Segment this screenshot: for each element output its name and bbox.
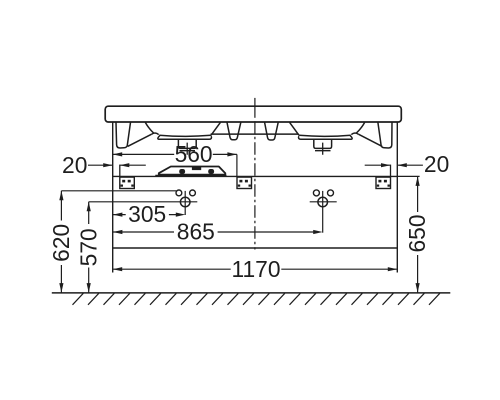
left faucet holes — [176, 190, 182, 196]
right underside diagonal — [358, 134, 382, 146]
left drain cross — [180, 143, 196, 155]
right drain crosshair — [318, 197, 328, 207]
right bowl hump — [351, 133, 358, 135]
dim 1170 — [113, 268, 398, 270]
cabinet top line — [113, 175, 398, 177]
dim 20 right — [365, 164, 423, 166]
right bowl outer wall — [356, 122, 365, 133]
inter-bowl ledge line — [211, 133, 299, 135]
svg-text:865: 865 — [177, 219, 215, 245]
right inner reference line — [390, 165, 392, 177]
dim 560 arrows — [113, 152, 237, 156]
right drain stub — [314, 139, 332, 148]
left underside diagonal — [128, 134, 152, 146]
floor hatching — [73, 293, 440, 305]
dim 560 line — [113, 154, 237, 176]
svg-text:20: 20 — [424, 151, 449, 177]
right bowl inner left wall — [290, 122, 300, 135]
dim 865 — [113, 231, 315, 233]
svg-text:560: 560 — [175, 141, 213, 167]
bracket foot right — [208, 169, 214, 174]
bracket center tab — [192, 166, 201, 170]
bracket baseline — [155, 175, 226, 177]
left bowl under line with curled ends — [158, 136, 212, 140]
left inner reference line — [119, 165, 121, 177]
right leg (basin apron) — [378, 122, 392, 148]
centerline (vertical dash-dot axis) — [254, 98, 256, 118]
left leg (basin apron) — [116, 122, 131, 148]
dim 570 — [89, 202, 198, 293]
right faucet holes — [313, 190, 319, 196]
drain bracket body — [159, 167, 226, 175]
left bowl outer wall — [145, 122, 154, 133]
mounting box left — [120, 177, 135, 188]
left bowl bottom line — [159, 135, 211, 136]
svg-text:305: 305 — [128, 201, 166, 227]
middle tooth A — [227, 122, 241, 139]
svg-text:20: 20 — [62, 152, 87, 178]
left drain stub — [178, 139, 196, 148]
dim 650 — [397, 176, 419, 292]
countertop slab — [105, 106, 401, 122]
middle tooth B — [265, 122, 279, 140]
left drain crosshair — [180, 197, 190, 207]
svg-text:650: 650 — [404, 214, 430, 252]
right bowl under line with curled ends — [299, 136, 353, 140]
cabinet right side / extension line — [396, 122, 398, 272]
svg-text:570: 570 — [75, 228, 101, 266]
svg-text:620: 620 — [48, 224, 74, 262]
mounting box right — [376, 177, 391, 188]
cabinet left side / extension line — [112, 122, 114, 272]
right drain cross — [315, 143, 331, 155]
left bowl hump — [152, 133, 159, 135]
bracket foot left — [179, 169, 185, 174]
dim 620 — [61, 191, 176, 293]
right bowl bottom line — [299, 135, 351, 136]
left bowl inner right wall — [211, 122, 221, 135]
mounting box middle — [237, 177, 252, 188]
dim 305 — [113, 214, 178, 216]
cabinet bottom line — [113, 247, 398, 249]
svg-text:1170: 1170 — [231, 256, 280, 282]
dim 20 left — [88, 164, 146, 166]
floor line — [52, 292, 451, 294]
